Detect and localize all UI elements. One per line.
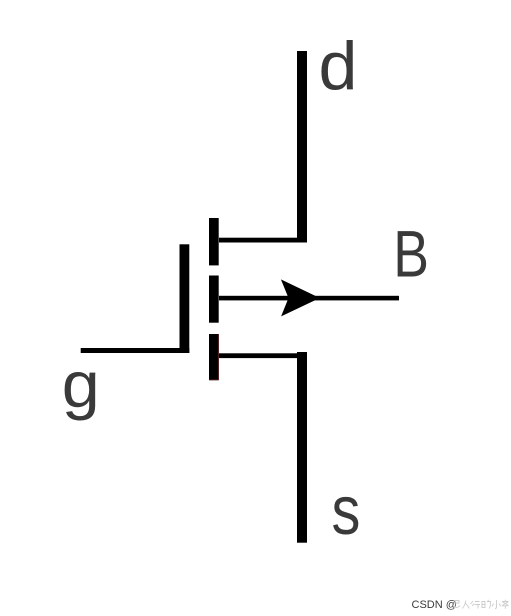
svg-text:s: s bbox=[331, 474, 360, 550]
svg-text:CSDN @: CSDN @ bbox=[412, 599, 457, 611]
svg-text:g: g bbox=[62, 350, 100, 422]
svg-text:B: B bbox=[393, 217, 429, 291]
svg-text:d: d bbox=[319, 28, 358, 104]
